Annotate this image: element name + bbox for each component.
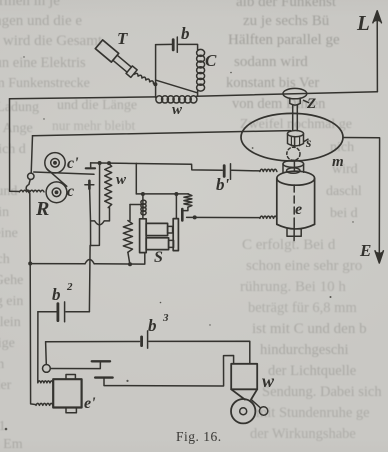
svg-text:s: s: [305, 136, 312, 151]
svg-text:b: b: [181, 24, 190, 43]
svg-text:3: 3: [162, 312, 169, 324]
svg-text:c': c': [67, 155, 79, 172]
svg-text:2: 2: [66, 281, 73, 293]
svg-text:m: m: [332, 154, 344, 170]
svg-text:L: L: [356, 11, 370, 35]
svg-text:T: T: [117, 29, 128, 48]
svg-text:b': b': [216, 175, 230, 194]
svg-text:w: w: [116, 172, 127, 188]
svg-text:c: c: [67, 183, 74, 200]
svg-text:b: b: [52, 285, 61, 304]
svg-text:e': e': [84, 395, 96, 412]
svg-text:Z: Z: [306, 96, 316, 112]
svg-text:b: b: [148, 316, 157, 335]
svg-text:S: S: [154, 249, 163, 266]
svg-text:R: R: [35, 198, 49, 220]
svg-text:C: C: [205, 51, 217, 70]
svg-text:w: w: [172, 102, 183, 118]
svg-text:E: E: [359, 241, 371, 260]
svg-text:e: e: [295, 201, 302, 218]
svg-text:w: w: [262, 371, 275, 391]
